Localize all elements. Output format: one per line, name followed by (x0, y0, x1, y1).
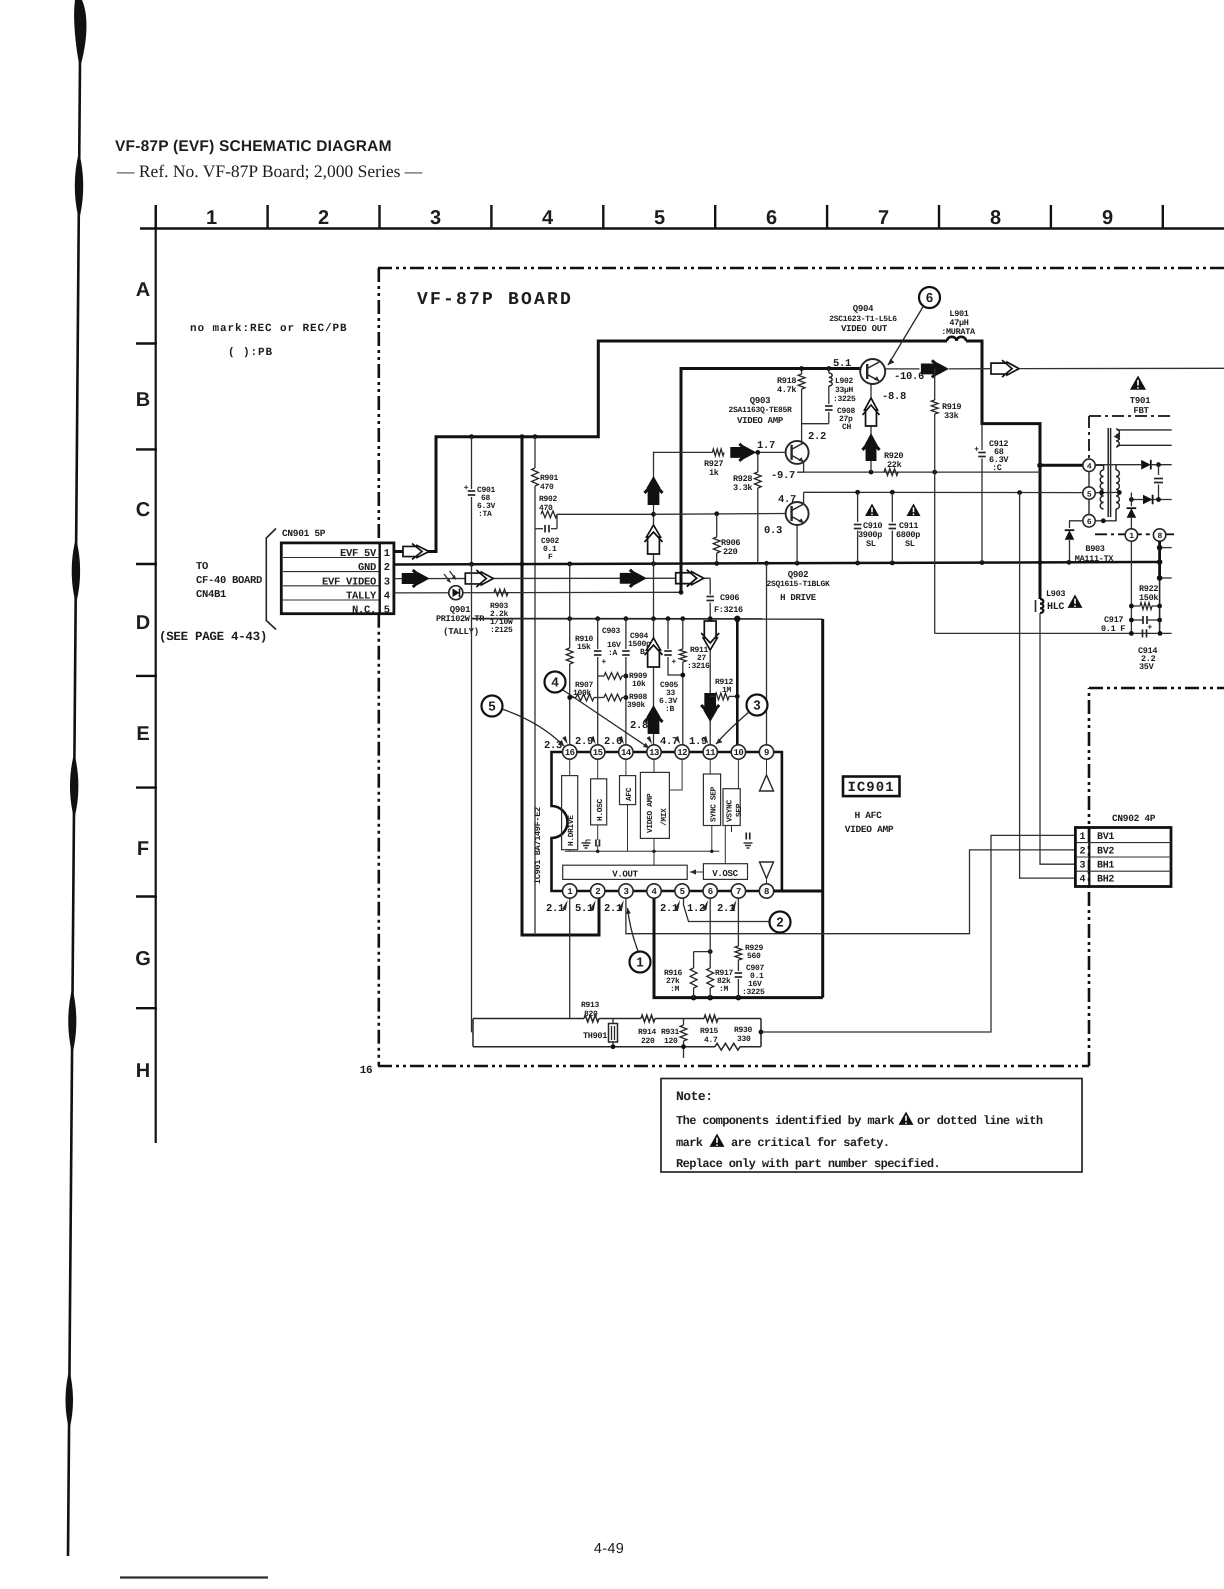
svg-text:CH: CH (842, 423, 852, 432)
svg-text:1: 1 (1129, 532, 1134, 541)
circled 4 callout (545, 672, 566, 693)
arrow black down pin11 (701, 693, 719, 722)
wire pin13 column with arrows (653, 619, 655, 745)
arrow hollow up pin13 (645, 638, 663, 667)
svg-text:7: 7 (878, 207, 889, 229)
svg-text:4: 4 (1079, 875, 1085, 886)
svg-text:1.7: 1.7 (757, 440, 775, 452)
svg-text:6: 6 (926, 290, 933, 305)
svg-text:VIDEO AMP: VIDEO AMP (845, 824, 894, 835)
svg-text:33k: 33k (944, 411, 959, 421)
node bottom rail junctions (691, 995, 697, 1001)
board outline dashed top (378, 267, 1224, 270)
capacitor C901 (471, 437, 473, 489)
resistor R922 (1140, 603, 1152, 610)
board outline dashed left lower (377, 614, 380, 1066)
svg-text:330: 330 (737, 1035, 751, 1044)
diode B903 (1070, 521, 1083, 528)
arrow video 4 hollow (676, 570, 704, 587)
warning T901 (1130, 376, 1146, 390)
svg-text::B: :B (665, 705, 675, 714)
svg-text::M: :M (719, 985, 729, 994)
svg-text:0.1 F: 0.1 F (1101, 624, 1125, 634)
wire Q902 base (654, 513, 787, 516)
svg-text:MA111-TX: MA111-TX (1075, 554, 1115, 564)
svg-text:BH1: BH1 (1097, 861, 1114, 872)
svg-text:HLC: HLC (1047, 602, 1064, 613)
svg-text:5: 5 (1087, 490, 1092, 499)
svg-text:2: 2 (1079, 846, 1085, 857)
svg-text:2.8: 2.8 (630, 720, 648, 732)
svg-text:IC901: IC901 (847, 780, 894, 796)
svg-text:B903: B903 (1085, 544, 1104, 554)
resistor R903 (494, 589, 508, 596)
board outline dashed bottom (378, 1065, 1089, 1068)
arrow emitter hollow up (863, 398, 880, 426)
svg-text:16: 16 (360, 1065, 373, 1077)
wire strip top edge (473, 1018, 584, 1020)
bottom blue rule (120, 1576, 268, 1578)
svg-text:N.C.: N.C. (352, 605, 376, 617)
board outline dashed left upper (377, 268, 380, 543)
IC901 amp triangle bottom (760, 862, 774, 879)
svg-text:15k: 15k (577, 643, 591, 652)
transformer T901 top winding (1116, 429, 1119, 447)
svg-text:2.3: 2.3 (544, 740, 562, 752)
svg-text:TO: TO (196, 561, 208, 573)
wire Q904 collector output (885, 368, 920, 370)
svg-text:2SQ1615-T1BLGK: 2SQ1615-T1BLGK (766, 580, 830, 589)
svg-text:H AFC: H AFC (854, 810, 882, 821)
svg-text:C906: C906 (720, 593, 739, 603)
svg-text:5: 5 (680, 887, 685, 897)
svg-text:FBT: FBT (1133, 406, 1149, 416)
resistor R928 (757, 452, 759, 472)
wire C903 rail (472, 618, 823, 620)
wire pin9 column (766, 563, 768, 745)
svg-text:VIDEO AMP: VIDEO AMP (646, 793, 655, 833)
svg-text:1: 1 (636, 955, 643, 970)
FBT pins 1 and 8 (1125, 529, 1137, 541)
connector CN901 brace (266, 529, 276, 630)
resistor R907 (570, 697, 576, 699)
node tally end (679, 590, 684, 595)
svg-text::3225: :3225 (742, 988, 765, 997)
inductor L901 (947, 337, 966, 341)
svg-text:4-49: 4-49 (594, 1541, 624, 1557)
svg-text:0.3: 0.3 (764, 525, 782, 537)
resistor R909 (598, 675, 604, 677)
svg-text:16: 16 (565, 748, 575, 758)
diode rectifier 2 (1143, 495, 1153, 505)
capacitor C904 pin14 column (625, 619, 627, 649)
svg-text:G: G (135, 948, 151, 970)
wire pin1 column (569, 898, 571, 1018)
capacitor C906 (709, 578, 711, 594)
connector CN901 box (281, 543, 394, 614)
svg-text:D: D (136, 612, 150, 634)
svg-text:2.9: 2.9 (575, 736, 593, 748)
svg-text:820: 820 (584, 1010, 598, 1019)
wire TALLY line (394, 591, 681, 594)
svg-text::A: :A (608, 649, 618, 658)
resistor R920 (884, 469, 898, 476)
resistor R901 (534, 437, 536, 468)
svg-text:GND: GND (358, 562, 376, 574)
wire FBT5 node to BH2 (1020, 493, 1076, 878)
svg-text:IC901 BA7149F-E2: IC901 BA7149F-E2 (533, 807, 543, 884)
svg-text:12: 12 (677, 748, 687, 758)
Q901 photo arrows (444, 574, 451, 583)
svg-text:9: 9 (1102, 207, 1113, 229)
svg-text:CN901 5P: CN901 5P (282, 528, 326, 539)
svg-text:R915: R915 (700, 1027, 719, 1036)
svg-text:33µH: 33µH (835, 386, 854, 395)
svg-text:B: B (136, 389, 150, 411)
svg-text:6: 6 (766, 207, 777, 229)
arrow up hollow x653 (645, 525, 663, 554)
IC901 inner verticals (627, 805, 629, 852)
capacitor C911 (891, 492, 893, 522)
svg-text:Note:: Note: (676, 1089, 713, 1104)
svg-text:4: 4 (1087, 463, 1092, 472)
capacitor C902 (534, 514, 536, 528)
svg-text:BV1: BV1 (1097, 832, 1114, 843)
capacitor C914 (1142, 629, 1144, 637)
svg-text:1M: 1M (722, 686, 732, 695)
svg-text:TH901: TH901 (583, 1031, 607, 1041)
wire Q902 emitter (796, 525, 798, 564)
svg-text:5: 5 (384, 605, 390, 617)
svg-text:+: + (602, 657, 607, 666)
IC901 vout-vosc link (690, 871, 703, 873)
svg-text:V.OSC: V.OSC (712, 869, 738, 879)
svg-text:5: 5 (654, 207, 665, 229)
row ticks (136, 342, 157, 344)
svg-text:-9.7: -9.7 (771, 470, 795, 482)
svg-text:2SA1163Q-TE85R: 2SA1163Q-TE85R (728, 406, 792, 415)
svg-text:H DRIVE: H DRIVE (780, 593, 817, 603)
binding blob top (74, 0, 86, 68)
svg-text:VF-87P BOARD: VF-87P BOARD (417, 290, 573, 310)
resistor R917 (709, 898, 711, 968)
arrow video 3 black (620, 570, 647, 587)
svg-text:560: 560 (747, 952, 761, 961)
capacitor C912 (981, 424, 983, 450)
wire thick Q904 base net (681, 369, 861, 593)
svg-text:15: 15 (593, 748, 603, 758)
arrow hollow down pin11 (701, 621, 719, 650)
circled 6 callout (919, 287, 940, 308)
svg-text:R901: R901 (540, 474, 559, 483)
resistor R918 (801, 369, 803, 375)
svg-text:13: 13 (649, 748, 659, 758)
capacitor C910 (857, 492, 859, 522)
resistor R915 (704, 1015, 718, 1022)
arrow black up pin13 (645, 705, 663, 734)
board outline dashed top-right stub (1089, 687, 1224, 690)
transformer T901 primary winding (1100, 470, 1103, 509)
IC901 inner block H.DRIVE (562, 776, 578, 850)
arrow on pin1 (403, 544, 429, 560)
IC901 label box (843, 777, 900, 797)
svg-text::C: :C (992, 463, 1002, 473)
IC901 inner bus (565, 850, 719, 852)
capacitor C917 (1142, 616, 1144, 624)
svg-text:C903: C903 (602, 627, 621, 636)
svg-text:no mark:REC or REC/PB: no mark:REC or REC/PB (190, 323, 348, 335)
svg-text:10: 10 (733, 748, 743, 758)
thermistor TH901 (609, 1024, 618, 1043)
svg-text:+: + (974, 445, 979, 454)
wire thick pin4 bottom rail (654, 898, 823, 997)
node GND junctions (469, 562, 474, 567)
IC901 inner block AFC (620, 776, 636, 805)
wire L903 to BH1 (1040, 613, 1075, 864)
arrow base black (730, 444, 756, 461)
wire thick to FBT pin4 (1040, 464, 1083, 467)
IC901 bottom pins (563, 884, 577, 898)
wire FBT rail2 (1131, 499, 1143, 501)
wire R930 output to BV1 (759, 1030, 764, 1035)
wire thick GND-to-L903 segment (1039, 563, 1042, 600)
wire Q904 emitter column (870, 384, 872, 472)
transformer T901 outline (1089, 415, 1172, 417)
svg-text:6: 6 (708, 887, 713, 897)
svg-text:150k: 150k (1139, 593, 1158, 603)
node 5V rail junctions (469, 434, 474, 439)
svg-text:1: 1 (206, 207, 217, 229)
IC901 inner block VIDEO AMP MIX (640, 772, 669, 838)
svg-text:2: 2 (595, 887, 600, 897)
svg-text:(TALLY): (TALLY) (443, 627, 479, 637)
wire pin11 column with arrows (709, 619, 711, 745)
svg-text:9: 9 (764, 748, 769, 758)
wire strip bottom edge (473, 1046, 715, 1048)
resistor R929 (737, 898, 739, 946)
wire EVF VIDEO line (394, 577, 710, 579)
svg-text:220: 220 (641, 1037, 655, 1046)
svg-text:3: 3 (430, 207, 441, 229)
svg-text:470: 470 (540, 483, 554, 492)
svg-text:EVF 5V: EVF 5V (340, 548, 377, 560)
svg-text:CN902 4P: CN902 4P (1112, 813, 1156, 824)
svg-text:SEP: SEP (735, 803, 744, 817)
svg-text:+: + (1148, 622, 1153, 631)
svg-text:F: F (548, 553, 553, 562)
svg-text:R914: R914 (638, 1028, 657, 1037)
svg-text:3: 3 (753, 698, 760, 713)
transformer T901 core (1107, 428, 1109, 517)
resistor R911 pin12 column (682, 619, 684, 649)
transistor Q902 (786, 502, 809, 525)
svg-text:8: 8 (764, 887, 769, 897)
svg-text:2.1: 2.1 (546, 903, 564, 915)
resistor R919 (932, 366, 937, 371)
svg-text:or dotted line with: or dotted line with (917, 1114, 1043, 1128)
wire output to edge (1019, 367, 1224, 369)
svg-text:+: + (464, 483, 469, 492)
svg-text:Replace only with part number: Replace only with part number specified. (676, 1157, 940, 1171)
svg-text:F: F (137, 838, 149, 860)
IC901 inner block VSYNC SEP (723, 789, 740, 826)
svg-text:-8.8: -8.8 (882, 391, 906, 403)
svg-text:8: 8 (1157, 532, 1162, 541)
svg-text:8: 8 (990, 207, 1001, 229)
wire FBT top rail (1095, 464, 1141, 466)
svg-text:10k: 10k (632, 680, 646, 689)
ruler ticks (154, 205, 156, 229)
wire arrow column mid (653, 563, 655, 619)
svg-text:1: 1 (384, 548, 390, 560)
svg-text:2: 2 (776, 915, 783, 930)
IC901 top pins (563, 745, 577, 759)
capacitor C905 (667, 619, 669, 649)
resistor R910 pin16 column (569, 563, 571, 648)
svg-text::TA: :TA (478, 510, 492, 519)
svg-text:T901: T901 (1130, 396, 1151, 406)
svg-text:EVF VIDEO: EVF VIDEO (322, 576, 376, 588)
svg-text::M: :M (670, 985, 680, 994)
svg-text:35V: 35V (1139, 662, 1155, 672)
resistor R908 (594, 697, 604, 699)
svg-text::MURATA: :MURATA (941, 327, 976, 337)
svg-text:Q904: Q904 (853, 304, 874, 314)
svg-text:220: 220 (723, 547, 738, 557)
svg-text:22k: 22k (887, 460, 902, 470)
arrow video 1 black (402, 570, 430, 587)
IC901 VSYNC cap ground (745, 833, 747, 840)
svg-text:V.OUT: V.OUT (612, 869, 638, 879)
svg-text:R930: R930 (734, 1026, 753, 1035)
svg-text:2: 2 (318, 207, 329, 229)
svg-text:B: B (640, 648, 645, 657)
svg-text::3216: :3216 (687, 662, 710, 671)
svg-text:2.2: 2.2 (808, 431, 826, 443)
svg-text:BH2: BH2 (1097, 875, 1114, 886)
wire C914 rail (935, 632, 1172, 634)
circled 5 callout (482, 696, 503, 717)
svg-text:14: 14 (621, 748, 632, 758)
svg-text:2: 2 (384, 562, 390, 574)
svg-text:100k: 100k (573, 689, 592, 698)
svg-text:4.7: 4.7 (778, 494, 796, 506)
transistor Q903 (786, 441, 809, 464)
resistor R906 (716, 514, 718, 537)
note box (661, 1079, 1082, 1173)
wire pin10 thick column (736, 619, 739, 745)
wire Q903 emitter to R920 rail (797, 462, 804, 472)
circled 1 callout (630, 952, 651, 973)
svg-text:Q902: Q902 (788, 570, 808, 580)
binding blob y571 (72, 538, 80, 604)
svg-text:1: 1 (1079, 832, 1085, 843)
wire Q902 collector rail to FBT pin5 (803, 492, 805, 505)
svg-text:CN4B1: CN4B1 (196, 589, 226, 601)
wire R902 node down to pin2 return (534, 529, 536, 934)
svg-text:H.OSC: H.OSC (596, 798, 605, 821)
wire R920 rail (797, 471, 1040, 473)
wire Q903 collector (801, 441, 803, 444)
svg-text:2SC1623-T1-L5L6: 2SC1623-T1-L5L6 (829, 315, 897, 324)
svg-text:VF-87P (EVF) SCHEMATIC DIAGRAM: VF-87P (EVF) SCHEMATIC DIAGRAM (115, 138, 392, 155)
svg-text:+: + (672, 657, 677, 666)
svg-text:H: H (136, 1060, 150, 1082)
svg-text:SL: SL (866, 539, 876, 549)
wire thick 5V down branch x522 (522, 437, 599, 935)
svg-text:5: 5 (488, 699, 495, 714)
svg-text:390k: 390k (627, 701, 646, 710)
FBT pin circles 4 5 6 (1083, 459, 1095, 471)
svg-text:C: C (136, 499, 150, 521)
arrow out hollow (991, 360, 1019, 377)
svg-text:4: 4 (542, 207, 554, 229)
svg-text:4: 4 (551, 675, 559, 690)
resistor R913 (584, 1015, 599, 1022)
svg-text:VIDEO OUT: VIDEO OUT (841, 324, 888, 334)
binding blob y1400 (66, 1370, 74, 1430)
svg-text:E: E (136, 723, 149, 745)
svg-text:3: 3 (623, 887, 628, 897)
wire R902 to Q902 base (557, 513, 654, 515)
svg-text:SL: SL (905, 539, 915, 549)
svg-text:VIDEO AMP: VIDEO AMP (737, 416, 784, 426)
wire circle1 column (1130, 541, 1132, 633)
left axis line (155, 205, 157, 1143)
wire pin3 to BV2 route (626, 850, 1076, 934)
svg-text:BV2: BV2 (1097, 846, 1114, 857)
wire x471.5 long vertical (471, 563, 473, 618)
capacitor FBT filter (1158, 465, 1160, 475)
wire FBT pin5 tap (1095, 491, 1121, 493)
transistor Q904 (860, 359, 885, 384)
wire thick pin8 stub (774, 890, 823, 893)
svg-text:mark: mark (676, 1136, 703, 1150)
resistor R931 pin5 column (683, 1019, 685, 1026)
resistor R914 (641, 1015, 655, 1022)
svg-text:SYNC SEP: SYNC SEP (710, 786, 719, 822)
svg-text:TALLY: TALLY (346, 590, 377, 602)
wire FBT pin6 tap (1096, 520, 1117, 522)
inductor L902 and C908 branch (826, 366, 831, 371)
arrow out black (921, 360, 949, 377)
wire strip sides (472, 1019, 474, 1047)
resistor R916 (694, 951, 711, 953)
svg-text:470: 470 (539, 504, 553, 513)
svg-text:F:3216: F:3216 (714, 605, 743, 615)
wire circle8 column (1158, 541, 1161, 578)
connector CN902 box (1075, 828, 1171, 887)
svg-text:L903: L903 (1046, 589, 1065, 599)
svg-text:3: 3 (1079, 861, 1085, 872)
svg-text:L902: L902 (835, 377, 854, 386)
svg-text:4.7k: 4.7k (777, 385, 796, 395)
svg-text:are critical for safety.: are critical for safety. (731, 1136, 889, 1150)
wire EVF5V thick path (394, 341, 947, 552)
warning L903 (1068, 595, 1083, 608)
svg-text:/MIX: /MIX (660, 808, 669, 826)
wire thick right drop x822.7 (821, 619, 824, 998)
arrow video 2 hollow (465, 570, 493, 587)
capacitor C907 (735, 972, 743, 974)
svg-text:VSYNC: VSYNC (726, 799, 735, 822)
IC901 inner block H.OSC (591, 779, 607, 825)
resistor R912 (710, 695, 715, 697)
circled 2 callout and pin5 wire (684, 898, 770, 921)
svg-text:11: 11 (705, 748, 716, 758)
capacitor C903 pin15 column (597, 619, 599, 649)
arrow emitter black up (863, 433, 880, 461)
